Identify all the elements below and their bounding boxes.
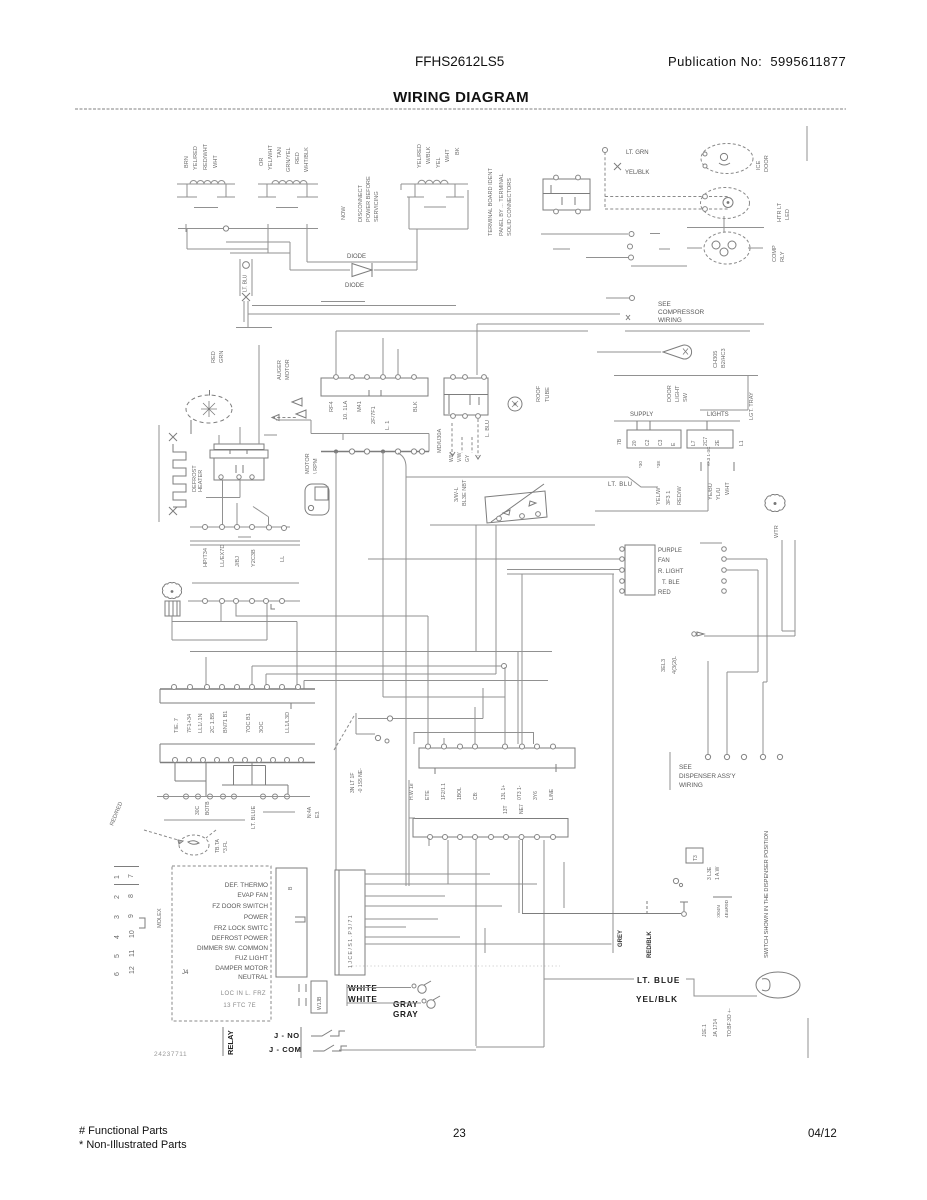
svg-text:4EaR9D: 4EaR9D xyxy=(724,899,730,918)
stub pin wire xyxy=(428,838,430,846)
svg-text:NOW: NOW xyxy=(341,206,347,220)
svg-text:T3: T3 xyxy=(693,855,699,861)
svg-text:* Non-Illustrated Parts: * Non-Illustrated Parts xyxy=(79,1139,187,1151)
wire color labels mid right xyxy=(656,482,731,505)
svg-text:DISCONNECT: DISCONNECT xyxy=(358,184,364,222)
lower bar pins xyxy=(428,835,556,840)
svg-text:J - COM: J - COM xyxy=(269,1045,302,1054)
dispenser micro switch xyxy=(522,901,688,914)
svg-text:13T: 13T xyxy=(503,805,509,814)
svg-text:WIRING: WIRING xyxy=(679,782,703,789)
svg-text:ETE: ETE xyxy=(425,790,431,800)
svg-text:SWITCH SHOWN IN THE DISPENSER: SWITCH SHOWN IN THE DISPENSER POSITION xyxy=(764,831,770,958)
svg-text:HEATER: HEATER xyxy=(198,470,204,492)
pin drop wires xyxy=(172,603,304,689)
tick mark xyxy=(626,315,630,320)
lamp assembly L2 (refrigerator light) xyxy=(258,181,318,208)
lower pin rail xyxy=(157,796,310,798)
block pins xyxy=(426,744,556,749)
svg-text:HP/T34: HP/T34 xyxy=(203,548,209,567)
svg-text:\ RPM: \ RPM xyxy=(313,458,319,474)
svg-text:1: 1 xyxy=(114,875,121,879)
control board signal names xyxy=(197,882,268,981)
drop wire x336 xyxy=(335,452,337,871)
svg-text:3 L3E: 3 L3E xyxy=(707,866,713,880)
molex pin numbers 1-6 xyxy=(114,875,121,976)
defrost thermostat bulb xyxy=(663,345,692,359)
connector row labels xyxy=(203,545,286,567)
connector J1 xyxy=(335,870,365,975)
lights supply rail xyxy=(614,375,758,377)
svg-text:1F2/1.1: 1F2/1.1 xyxy=(441,783,447,800)
control box feed wires xyxy=(336,331,398,375)
svg-text:13 FTC 7E: 13 FTC 7E xyxy=(223,1003,256,1009)
dispenser connector circles xyxy=(705,754,782,759)
svg-text:E3.: E3. xyxy=(315,810,321,818)
wire to diode xyxy=(290,229,417,271)
wire terminal 2 run xyxy=(726,559,767,754)
svg-text:2E: 2E xyxy=(715,439,721,446)
svg-text:1BOL: 1BOL xyxy=(457,787,463,800)
feed wires to dispenser board xyxy=(368,559,620,574)
harness plug xyxy=(697,632,704,636)
svg-text:M41: M41 xyxy=(357,401,363,412)
diode D1 xyxy=(352,263,372,277)
water valve labels xyxy=(702,1008,733,1037)
low side pointer xyxy=(334,716,354,750)
svg-text:PURPLE: PURPLE xyxy=(658,548,682,554)
E1 filament xyxy=(719,153,730,165)
water filter symbol xyxy=(765,494,785,511)
faint perforation dots xyxy=(352,965,560,967)
svg-text:TB.TA: TB.TA xyxy=(215,839,221,853)
paddle pivot xyxy=(673,878,678,883)
defrost heater supply line xyxy=(158,425,160,522)
svg-text:TIE. 7: TIE. 7 xyxy=(174,718,180,733)
svg-text:2: 2 xyxy=(114,895,121,899)
lamp L2 wire labels xyxy=(259,145,310,172)
svg-text:RF4: RF4 xyxy=(329,401,335,412)
drop x476 xyxy=(475,525,477,652)
svg-text:B2/HC3: B2/HC3 xyxy=(721,348,727,368)
svg-text:YEL/BLK: YEL/BLK xyxy=(625,170,649,176)
door switch WH xyxy=(412,981,431,993)
svg-text:04/12: 04/12 xyxy=(808,1128,837,1140)
svg-text:12: 12 xyxy=(129,966,136,974)
svg-text:W1JB: W1JB xyxy=(317,996,323,1010)
E1 terminal hooks xyxy=(703,152,707,156)
switch box SB2 xyxy=(687,421,733,448)
bus y674 xyxy=(266,673,496,675)
heater arrow bottom xyxy=(169,507,177,515)
svg-text:3N LT 1F: 3N LT 1F xyxy=(350,773,356,793)
svg-text:J1E.1: J1E.1 xyxy=(702,1024,708,1037)
relay contact NO xyxy=(311,1030,345,1036)
lower bar feed xyxy=(409,817,415,819)
LT.BLU horizontal wire xyxy=(406,476,628,478)
svg-text:4: 4 xyxy=(114,935,121,939)
svg-text:Publication No: 5995611877: Publication No: 5995611877 xyxy=(668,54,846,69)
svg-text:0T3 1-: 0T3 1- xyxy=(517,785,523,800)
aux connector box xyxy=(311,981,327,1013)
svg-text:TERMINAL BOARD IDENT: TERMINAL BOARD IDENT xyxy=(488,168,494,236)
dispenser connector block (upper) xyxy=(419,748,575,774)
svg-text:N:4A: N:4A xyxy=(307,806,313,818)
svg-text:8: 8 xyxy=(128,894,135,898)
svg-text:GRAY: GRAY xyxy=(393,1010,418,1019)
harness node xyxy=(603,148,608,153)
svg-text:24237711: 24237711 xyxy=(154,1051,187,1058)
overline note xyxy=(713,896,732,898)
defrost timer relay box (top) xyxy=(543,179,590,210)
see dispenser note xyxy=(679,764,736,789)
svg-text:TUBE: TUBE xyxy=(545,387,551,402)
bus y680 xyxy=(304,680,548,682)
wire terminal 3 run xyxy=(726,570,758,754)
svg-text:H.W 1e: H.W 1e xyxy=(409,783,415,800)
damper rail xyxy=(164,819,245,821)
svg-text:SERVICING: SERVICING xyxy=(374,191,380,222)
svg-text:3OC: 3OC xyxy=(259,721,265,733)
svg-text:POWER BEFORE: POWER BEFORE xyxy=(366,176,372,222)
svg-text:J4: J4 xyxy=(182,970,189,976)
ice maker feed wires xyxy=(219,345,277,444)
svg-text:LL1/L3D: LL1/L3D xyxy=(285,712,291,733)
svg-text:6: 6 xyxy=(114,972,121,976)
svg-text:YE/BU: YE/BU xyxy=(708,483,714,500)
E2 hooks xyxy=(703,194,708,199)
svg-text:RED: RED xyxy=(211,351,217,363)
svg-text:CB:: CB: xyxy=(473,792,479,800)
svg-text:1 A.W: 1 A.W xyxy=(715,866,721,880)
timer box pins bottom xyxy=(451,414,481,419)
E2 lamp xyxy=(723,198,733,208)
SB2 pin labels xyxy=(691,437,745,446)
drop arrowheads xyxy=(450,452,481,459)
svg-text:MOLEX: MOLEX xyxy=(157,908,163,928)
svg-text:YL/U: YL/U xyxy=(716,488,722,500)
svg-text:SUPPLY: SUPPLY xyxy=(630,412,653,418)
svg-text:YEL/RED: YEL/RED xyxy=(193,146,199,170)
door switch terminals xyxy=(497,512,541,521)
defrost sensor wire xyxy=(597,351,661,353)
title rule xyxy=(75,108,846,110)
svg-text:NE7: NE7 xyxy=(519,804,525,814)
svg-text:7OC B1: 7OC B1 xyxy=(246,713,252,733)
long drop x406 xyxy=(405,477,407,886)
molex pin ticks xyxy=(114,867,139,885)
svg-text:DEFROST POWER: DEFROST POWER xyxy=(212,935,269,942)
svg-text:W/BLK: W/BLK xyxy=(426,146,432,164)
defrost timer box xyxy=(444,378,488,415)
svg-text:RED/BLK: RED/BLK xyxy=(647,931,653,958)
ice maker mold body xyxy=(210,444,268,480)
ice maker output wires xyxy=(206,480,269,527)
damper motor (dashed ellipse) xyxy=(179,835,209,855)
note bracket xyxy=(669,752,671,790)
svg-text:5: 5 xyxy=(114,954,121,958)
compressor wires xyxy=(541,216,764,266)
svg-text:T. BLE: T. BLE xyxy=(662,580,680,586)
svg-text:1 J C E / S 1 . P 3 / 7 1: 1 J C E / S 1 . P 3 / 7 1 xyxy=(348,915,354,968)
svg-text:LT. BLU: LT. BLU xyxy=(243,274,249,292)
svg-text:2C 1.B5: 2C 1.B5 xyxy=(210,713,216,733)
lamp assembly L1 (freezer light) xyxy=(177,181,235,208)
svg-text:EVAP FAN: EVAP FAN xyxy=(237,892,268,899)
svg-text:PANEL BY ... TERMINAL: PANEL BY ... TERMINAL xyxy=(499,173,505,236)
control box pin labels xyxy=(329,400,419,430)
molex bracket xyxy=(139,918,145,928)
fan heater block xyxy=(165,601,180,616)
relay contact COM xyxy=(313,1045,347,1051)
bus y331 right xyxy=(625,330,750,332)
svg-text:3F3 1: 3F3 1 xyxy=(666,491,672,505)
lamp L1 wire labels xyxy=(184,143,219,170)
wire bridge into connector xyxy=(414,733,534,745)
svg-text:BOTB: BOTB xyxy=(205,801,211,815)
svg-text:RED: RED xyxy=(295,152,301,164)
inline connector LT.BLU (vertical) xyxy=(236,259,272,328)
drops below lower bar xyxy=(448,840,544,1047)
freezer control board (dashed) xyxy=(172,866,271,1021)
drop wire x383 xyxy=(382,452,384,698)
bus y651 xyxy=(190,651,552,653)
svg-text:DISPENSER ASS'Y: DISPENSER ASS'Y xyxy=(679,773,736,780)
main board connector strip xyxy=(321,451,429,453)
svg-text:7F1+34: 7F1+34 xyxy=(187,714,193,733)
dispenser interface board xyxy=(625,545,655,595)
pointer step wire xyxy=(356,713,375,734)
svg-text:RED/W: RED/W xyxy=(677,486,683,505)
svg-text:BK: BK xyxy=(455,147,461,155)
svg-text:DIMMER SW. COMMON: DIMMER SW. COMMON xyxy=(197,945,268,952)
ice maker pins xyxy=(219,475,254,479)
svg-text:GRN/YEL: GRN/YEL xyxy=(286,147,292,172)
svg-text:C2: C2 xyxy=(645,439,651,446)
bus y666 xyxy=(252,665,501,667)
wire from terminal 1 xyxy=(700,542,722,544)
svg-text:RELAY: RELAY xyxy=(226,1030,235,1055)
svg-text:L7: L7 xyxy=(691,440,697,446)
svg-text:HTR LT: HTR LT xyxy=(777,202,783,222)
wire ladder below L1 xyxy=(187,229,290,271)
svg-text:GY: GY xyxy=(465,454,471,462)
J1 harness wires xyxy=(365,874,612,953)
door light switch labels xyxy=(667,385,755,420)
thermistor xyxy=(508,397,522,411)
svg-text:J - NO: J - NO xyxy=(274,1031,300,1040)
svg-text:MD/U30A: MD/U30A xyxy=(437,428,443,453)
long bus y305 xyxy=(252,305,456,307)
freezer door switch body xyxy=(485,484,547,523)
svg-text:WHT: WHT xyxy=(213,155,219,168)
svg-text:*3.FL: *3.FL xyxy=(223,841,229,853)
svg-text:DOOR: DOOR xyxy=(667,385,673,402)
paddle switch box xyxy=(686,848,703,863)
svg-text:LIGHTS: LIGHTS xyxy=(707,412,729,418)
panel connector note (vertical) xyxy=(488,168,513,236)
svg-text:FFHS2612LS5: FFHS2612LS5 xyxy=(415,54,504,69)
svg-text:DIODE: DIODE xyxy=(347,254,366,260)
svg-text:WTR: WTR xyxy=(774,525,780,538)
svg-text:DEF. THERMO: DEF. THERMO xyxy=(225,882,268,889)
bus y697 xyxy=(383,696,505,698)
compressor windings xyxy=(712,241,736,256)
rail right edge xyxy=(700,376,748,411)
svg-text:LT. BLUE: LT. BLUE xyxy=(637,976,680,985)
svg-text:YEL: YEL xyxy=(436,157,442,168)
ice maker lamp ellipse E1 xyxy=(701,144,753,174)
SB1 pin labels xyxy=(617,438,677,446)
long bus y314 xyxy=(248,313,620,315)
svg-text:MOTOR: MOTOR xyxy=(305,453,311,474)
svg-text:COMPRESSOR: COMPRESSOR xyxy=(658,309,705,316)
svg-text:RLY: RLY xyxy=(780,251,786,262)
wire labels between blocks xyxy=(409,783,555,800)
svg-text:BN71 B1: BN71 B1 xyxy=(223,711,229,733)
compressor wire connectors xyxy=(628,232,635,261)
svg-text:-0 1S5 NE-: -0 1S5 NE- xyxy=(358,768,364,793)
svg-text:RED/WHT: RED/WHT xyxy=(203,143,209,170)
top bus wire xyxy=(178,224,318,232)
svg-text:GRN: GRN xyxy=(219,351,225,363)
svg-text:LIGHT: LIGHT xyxy=(675,385,681,402)
svg-text:TAN: TAN xyxy=(277,147,283,158)
svg-text:R. LIGHT: R. LIGHT xyxy=(658,569,684,575)
board edge connector xyxy=(276,868,307,977)
svg-text:# Functional Parts: # Functional Parts xyxy=(79,1125,168,1137)
svg-text:GREY: GREY xyxy=(618,930,624,947)
svg-text:*3E: *3E xyxy=(656,461,661,468)
svg-text:*30: *30 xyxy=(638,461,643,468)
svg-text:LT. BLUE: LT. BLUE xyxy=(251,806,257,829)
wire with connector xyxy=(606,297,629,299)
svg-text:ROOF: ROOF xyxy=(536,385,542,402)
compressor motor (dashed) xyxy=(704,232,750,264)
see compressor wiring note xyxy=(658,301,705,324)
svg-text:Y2C3B: Y2C3B xyxy=(251,549,257,567)
svg-text:AUGER: AUGER xyxy=(277,360,283,380)
damper stub wire xyxy=(263,811,295,813)
svg-text:WIRING DIAGRAM: WIRING DIAGRAM xyxy=(393,89,529,106)
ice maker connector row xyxy=(190,527,290,537)
bus y331 left xyxy=(336,330,588,332)
white/gray wires xyxy=(347,984,421,1006)
svg-text:L. 1: L. 1 xyxy=(385,421,391,430)
wire bus to timer xyxy=(476,324,478,375)
svg-text:SOLID CONNECTORS: SOLID CONNECTORS xyxy=(507,178,513,236)
damper motor core xyxy=(188,841,199,845)
board right terminals xyxy=(722,547,727,594)
svg-text:4(3(2(L: 4(3(2(L xyxy=(672,656,678,674)
main board connector bar B xyxy=(160,744,315,763)
svg-text:FUZ LIGHT: FUZ LIGHT xyxy=(235,955,268,962)
svg-text:SEE: SEE xyxy=(658,301,671,308)
dispenser harness verticals xyxy=(704,540,795,754)
svg-text:WHITE: WHITE xyxy=(348,984,377,993)
svg-text:WIRING: WIRING xyxy=(658,317,682,324)
timer box pins top xyxy=(451,375,487,380)
lamp assembly L3 (aux light) xyxy=(401,180,468,229)
flag contacts xyxy=(292,398,302,406)
svg-text:LGT. TRAY: LGT. TRAY xyxy=(749,392,755,420)
door switch rail xyxy=(430,524,595,526)
svg-text:10. 1LA: 10. 1LA xyxy=(343,400,349,420)
LT.BLU wire step xyxy=(628,477,658,487)
svg-text:FAN: FAN xyxy=(658,558,670,564)
bar A pins xyxy=(172,685,301,690)
timer harness dashed drops xyxy=(452,419,478,456)
svg-text:LED: LED xyxy=(785,209,791,220)
board left pins xyxy=(620,547,625,594)
long verticals through center xyxy=(409,574,613,953)
curved drop to LT.BLU wire xyxy=(398,453,406,477)
dashed harness wires xyxy=(605,152,728,209)
svg-text:23: 23 xyxy=(453,1128,466,1140)
harness x mark xyxy=(614,163,621,170)
svg-text:YEL/WHT: YEL/WHT xyxy=(268,145,274,170)
svg-text:LT. BLU: LT. BLU xyxy=(608,482,632,488)
svg-text:WHT: WHT xyxy=(445,149,451,162)
lower pin row xyxy=(164,794,290,799)
svg-text:YEL/RED: YEL/RED xyxy=(417,144,423,168)
svg-text:SEE: SEE xyxy=(679,764,692,771)
svg-text:FRZ LOCK SWITC: FRZ LOCK SWITC xyxy=(214,925,268,932)
stub line right xyxy=(807,1018,809,1058)
main control box (top) xyxy=(321,378,428,396)
svg-text:V/W: V/W xyxy=(457,452,463,462)
svg-text:TO:BF:3O +-: TO:BF:3O +- xyxy=(727,1008,733,1037)
defrost heater element (square wave) xyxy=(173,444,186,507)
dispenser lamp ellipse E2 xyxy=(701,188,750,219)
drop x496 xyxy=(495,525,497,674)
svg-text:DAMPER MOTOR: DAMPER MOTOR xyxy=(215,965,268,972)
svg-text:3EL3: 3EL3 xyxy=(661,659,667,672)
connector strip pins xyxy=(334,449,425,454)
svg-text:11: 11 xyxy=(129,950,136,957)
svg-text:YEL/BLK: YEL/BLK xyxy=(636,995,678,1004)
bar B pins xyxy=(173,758,304,763)
svg-text:YEL/W: YEL/W xyxy=(656,487,662,505)
damper pointer arrows xyxy=(144,830,216,840)
svg-text:MOTOR: MOTOR xyxy=(285,359,291,380)
wire from ice maker to connector xyxy=(276,420,429,452)
inline connector on top bus xyxy=(223,226,228,231)
svg-text:DIODE: DIODE xyxy=(345,283,364,289)
svg-text:J/BJ: J/BJ xyxy=(235,556,241,567)
svg-text:C3: C3 xyxy=(658,439,664,446)
svg-text:2F/7F1: 2F/7F1 xyxy=(371,406,377,424)
svg-text:CH305: CH305 xyxy=(713,351,719,368)
fresh food fan xyxy=(162,582,181,598)
short bus y302 xyxy=(321,301,365,303)
svg-text:OR: OR xyxy=(259,158,265,166)
connector row rail xyxy=(188,600,300,602)
disconnect power note (vertical) xyxy=(341,176,380,222)
svg-text:JA 1714: JA 1714 xyxy=(713,1019,719,1037)
water valve solenoid xyxy=(756,972,800,998)
svg-text:WHT: WHT xyxy=(725,482,731,495)
water valve wire xyxy=(544,979,757,996)
dispenser connector bar (lower) xyxy=(413,819,568,838)
svg-text:COMP: COMP xyxy=(772,245,778,262)
wire y719 xyxy=(358,688,483,719)
svg-text:3: 3 xyxy=(114,915,121,919)
svg-text:LT. GRN: LT. GRN xyxy=(626,150,649,156)
molex pin numbers 7-12 xyxy=(128,874,136,974)
step wires under bar B xyxy=(175,763,288,798)
svg-text:3/W-L: 3/W-L xyxy=(454,487,460,502)
